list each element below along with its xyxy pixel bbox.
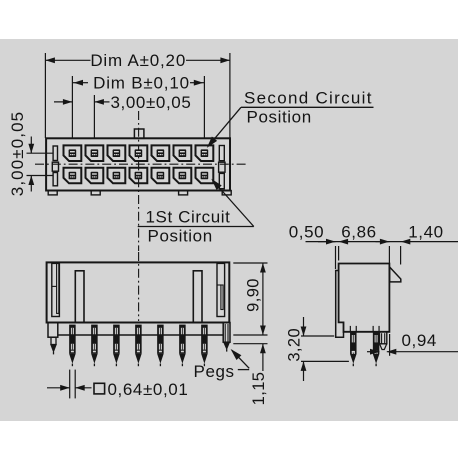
- dimension 9,90 extension line top: [233, 262, 267, 264]
- right slot lower: [219, 173, 224, 188]
- side view left slot outer: [52, 263, 60, 316]
- center line vertical (front view): [138, 111, 140, 251]
- left rib upper: [53, 146, 57, 161]
- profile pin front row: [350, 332, 357, 354]
- dimension Dim B±0,10 extension line right: [203, 76, 205, 138]
- side view pin 5: [157, 325, 164, 354]
- svg-text:3,00±0,05: 3,00±0,05: [111, 93, 192, 112]
- pin contact row2 col6: [179, 172, 187, 180]
- center line vertical (side view): [138, 252, 140, 321]
- dimension Dim A±0,20 extension line right: [229, 53, 231, 138]
- dimension Dim A±0,20 extension line left: [44, 53, 46, 138]
- socket row1 col6: [174, 145, 192, 161]
- leader underline Second Circuit: [241, 106, 374, 108]
- side view inner slot right: [193, 271, 202, 323]
- svg-text:3,00±0,05: 3,00±0,05: [8, 111, 27, 196]
- side view pin 2: [91, 325, 98, 354]
- side view body: [47, 262, 230, 322]
- left peg: [51, 337, 56, 344]
- dimension 3,00±0,05 extension line col2: [93, 95, 95, 138]
- svg-text:3,20: 3,20: [286, 328, 304, 362]
- socket row1 col4: [130, 145, 148, 161]
- pin contact row1 col6: [179, 149, 187, 157]
- svg-text:0,50: 0,50: [289, 223, 325, 242]
- socket row1 col5: [152, 145, 170, 161]
- svg-text:0,94: 0,94: [402, 331, 438, 350]
- pin contact row1 col3: [113, 149, 121, 157]
- side view right slot outer: [217, 263, 225, 316]
- socket row2 col4: [130, 168, 148, 184]
- right peg: [224, 342, 230, 349]
- svg-text:1St Circuit: 1St Circuit: [146, 208, 231, 227]
- center line horizontal (front view): [35, 163, 247, 165]
- side view pin 6: [179, 325, 186, 354]
- pin contact row2 col7: [201, 172, 209, 180]
- profile body outline: [339, 264, 390, 332]
- svg-text:Dim A±0,20: Dim A±0,20: [90, 51, 186, 70]
- side view pin 7: [201, 325, 208, 354]
- dimension 0,64 extension lines at pin 1: [69, 370, 71, 399]
- dimension line 0,64 with arrows: [47, 387, 70, 389]
- socket row1 col3: [108, 145, 126, 161]
- pin contact row1 col5: [157, 149, 165, 157]
- dimension 3,20 extension line top: [301, 335, 334, 337]
- socket row2 col2: [86, 168, 104, 184]
- right slot middle: [219, 162, 225, 172]
- dimension 9,90 extension line bottom: [233, 334, 267, 336]
- pin contact row2 col3: [113, 172, 121, 180]
- svg-text:0,64±0,01: 0,64±0,01: [108, 380, 189, 399]
- profile retention latch: [390, 267, 401, 282]
- socket row2 col6: [174, 168, 192, 184]
- dimension line 9,90: [262, 263, 264, 335]
- side view pin 3: [113, 325, 120, 354]
- connector body front view: [46, 138, 230, 190]
- profile pin back row: [373, 332, 380, 354]
- profile left rib standoff: [336, 271, 344, 338]
- dimension Dim B±0,10 extension line left: [71, 76, 73, 138]
- left peg housing: [48, 323, 58, 338]
- label square 0,64±0,01: [94, 383, 105, 394]
- dimension 3,20 extension line bottom: [301, 360, 349, 362]
- socket row2 col3: [108, 168, 126, 184]
- dimension 0,50 extension lines: [335, 246, 337, 269]
- pin contact row1 col4: [135, 149, 143, 157]
- profile pin row stubs above base: [349, 326, 351, 332]
- side view left slot inner rib: [57, 263, 59, 313]
- pin contact row1 col2: [91, 149, 99, 157]
- dimension line 0,94 with arrows: [387, 351, 458, 353]
- profile peg: [380, 332, 387, 344]
- profile top dimension line: [306, 241, 458, 243]
- dimension line Dim A±0,20: [45, 59, 90, 61]
- dimension 0,94 extension line: [389, 334, 391, 356]
- svg-text:1,15: 1,15: [250, 372, 268, 406]
- leader arrow to second circuit position socket: [209, 107, 241, 145]
- dimension line 3,00±0,05 with arrows: [54, 101, 72, 103]
- pin contact row1 col1: [69, 149, 77, 157]
- left rib lower: [53, 173, 57, 186]
- svg-text:1,40: 1,40: [408, 223, 444, 242]
- svg-text:Dim B±0,10: Dim B±0,10: [93, 74, 190, 93]
- dimension line 3,00 left with arrows: [30, 137, 32, 154]
- mounting feet under body: [48, 191, 57, 195]
- socket row1 col2: [86, 145, 104, 161]
- right peg housing: [223, 323, 230, 343]
- svg-text:Position: Position: [247, 108, 312, 127]
- socket row1 col1: [64, 145, 82, 161]
- dimension line 1,15: [262, 344, 264, 371]
- right slot upper: [219, 146, 224, 161]
- side view inner slot left: [75, 271, 84, 323]
- svg-text:Second Circuit: Second Circuit: [244, 89, 373, 108]
- dimension 3,00±0,05 left extension line row1: [27, 152, 54, 154]
- pin contact row2 col5: [157, 172, 165, 180]
- pin contact row2 col1: [69, 172, 77, 180]
- pin contact row1 col7: [201, 149, 209, 157]
- leader underline 1St Circuit: [138, 226, 254, 228]
- dimension line Dim B±0,10: [72, 82, 88, 84]
- pin contact row2 col4: [135, 172, 143, 180]
- leader arrow to first circuit position socket: [213, 181, 254, 227]
- side view pin 4: [135, 325, 142, 354]
- dimension 3,00±0,05 left extension line row2: [27, 175, 54, 177]
- side view right slot inner rib: [221, 285, 223, 310]
- left rib middle key: [52, 162, 58, 171]
- pin contact row2 col2: [91, 172, 99, 180]
- svg-text:Position: Position: [148, 227, 213, 246]
- dimension 1,15 extension line: [233, 343, 267, 345]
- svg-text:9,90: 9,90: [245, 278, 263, 312]
- socket row2 col5: [152, 168, 170, 184]
- svg-text:6,86: 6,86: [341, 223, 377, 242]
- leader arrow to peg: [232, 350, 249, 368]
- polarization key top center: [134, 129, 144, 138]
- socket row2 col7: [196, 168, 214, 184]
- socket row2 col1: [64, 168, 82, 184]
- socket row1 col7: [196, 145, 214, 161]
- seating flange bottom line: [58, 334, 223, 336]
- side view pin 1: [69, 325, 76, 354]
- svg-text:Pegs: Pegs: [194, 362, 235, 381]
- dimension 6,86 / 1,40 extension lines: [388, 246, 390, 263]
- dimension line 3,20 with arrows: [303, 317, 305, 336]
